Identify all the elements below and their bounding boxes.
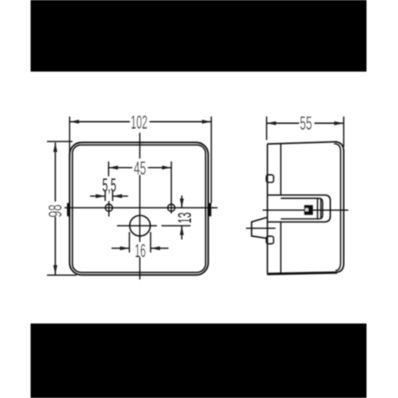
vertical centerline segment through circle — [139, 173, 141, 242]
left hole vertical crosshair — [108, 201, 110, 217]
bottom black bar — [31, 324, 367, 398]
vertical centerline segment above lamp — [139, 133, 141, 159]
hole right 5.5mm — [168, 204, 175, 211]
lower screw boss notch — [266, 236, 273, 244]
svg-text:13: 13 — [175, 212, 195, 223]
dim 55 extension right — [343, 117, 345, 148]
connector plug — [252, 217, 267, 238]
dim 13 arrows — [181, 196, 183, 208]
dim 45 line — [109, 167, 133, 169]
top black bar — [31, 0, 367, 72]
bracket tongue inner outline — [281, 198, 323, 219]
side view internal parting line upper — [280, 144, 282, 195]
svg-text:55: 55 — [300, 114, 312, 134]
side view internal parting line lower — [280, 222, 282, 272]
svg-text:45: 45 — [134, 158, 146, 178]
slot white notch — [305, 208, 308, 211]
center hole 16mm — [130, 215, 151, 236]
dim 55 extension left — [266, 117, 268, 141]
side view bottom edge — [267, 273, 337, 274]
dim 98 extension top — [47, 141, 73, 143]
dim 55 line — [267, 122, 300, 124]
dim 102 extension right — [210, 117, 212, 204]
tongue inner vertical double line — [317, 199, 319, 219]
dim 102 extension left — [69, 117, 71, 157]
upper screw boss notch — [266, 175, 273, 183]
13 dim lower extension line — [162, 225, 191, 227]
side view lens outer edge — [335, 142, 344, 273]
black slot square — [304, 205, 313, 215]
svg-text:16: 16 — [135, 241, 146, 261]
dim 98 line — [54, 143, 56, 203]
dim 5,5 arrows — [90, 195, 105, 197]
label 16 — [134, 243, 148, 257]
svg-text:102: 102 — [131, 112, 148, 132]
dim 102 line — [70, 121, 131, 123]
label 55 — [300, 116, 315, 130]
dim 16 extension ticks — [128, 232, 130, 253]
side view horizontal centerline — [263, 209, 349, 211]
circle horizontal crosshair — [117, 225, 157, 227]
side view top edge — [267, 142, 337, 144]
vertical centerline segment below 16 text — [139, 257, 141, 280]
horizontal centerline front view — [65, 207, 218, 209]
side view lens inner edge — [334, 144, 341, 271]
dim 98 extension bottom — [47, 274, 77, 276]
front view outer lens outline — [70, 142, 209, 275]
label 45 — [133, 161, 148, 174]
dim 45 extension right — [170, 162, 172, 214]
label 98 rotated — [47, 202, 62, 217]
connector centerline — [246, 227, 276, 229]
label 102 — [130, 115, 149, 129]
svg-text:5,5: 5,5 — [102, 175, 116, 195]
dim 5,5 extension ticks — [104, 191, 106, 201]
svg-text:98: 98 — [45, 204, 65, 217]
side view left housing edge — [266, 144, 268, 273]
bracket tongue outer outline — [267, 195, 330, 222]
dim 45 extension left — [108, 162, 110, 177]
right fixing tab — [208, 203, 211, 216]
dim 16 arrows — [112, 247, 130, 249]
hole left 5.5mm — [105, 204, 112, 211]
front view inner bezel line — [72, 145, 205, 273]
left fixing tab — [67, 203, 70, 216]
